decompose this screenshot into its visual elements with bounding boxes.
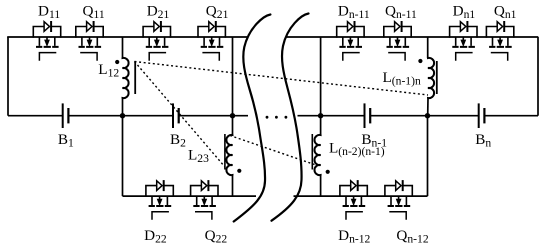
- inductor L23 core bar: [224, 134, 226, 170]
- wire: vertical branch x=427.5 middle rail to bottom rail: [427, 116, 429, 196]
- transistor switch Q22 (MOSFET with body diode): [191, 180, 218, 220]
- wire: right edge vertical: [537, 37, 539, 116]
- transistor switch Qn-11 (MOSFET with body diode): [384, 21, 411, 61]
- wire: middle rail segment between B(n-1) and Bn: [370, 115, 479, 117]
- wire: vertical branch x=233 top rail to middle rail: [232, 37, 234, 116]
- inductor L(n-2)(n-1) core bar: [311, 134, 313, 170]
- wire: vertical branch node1-node2 cell tap (L12 lower lead to bottom rail): [122, 116, 124, 196]
- node B2 right junction: [230, 113, 235, 118]
- wire: vertical branch x=321 top rail to middle rail: [320, 37, 322, 116]
- wire: middle rail segment from break to B(n-1): [298, 115, 365, 117]
- transistor switch Q11 (MOSFET with body diode): [76, 21, 103, 61]
- battery Bn: [479, 103, 485, 128]
- inductor L12 core bar: [134, 61, 136, 94]
- node B(n-1) left junction: [318, 113, 323, 118]
- inductor L(n-2)(n-1) winding: [314, 116, 320, 196]
- battery Bn-1: [365, 103, 371, 128]
- coupling dotted line L12 to L(n-1)n: [135, 62, 429, 96]
- transistor switch Qn1 (MOSFET with body diode): [486, 21, 513, 61]
- battery B2: [173, 103, 179, 128]
- inductor L(n-1)n core bar: [436, 61, 438, 94]
- wire: middle rail segment right of Bn: [484, 115, 538, 117]
- transistor switch Dn-11 (MOSFET with body diode): [337, 21, 364, 61]
- wire: middle rail segment between B1 and B2: [68, 115, 173, 117]
- inductor L23 winding: [226, 116, 232, 196]
- transistor switch Q21 (MOSFET with body diode): [198, 21, 225, 61]
- break squiggle right: [272, 14, 309, 221]
- transistor switch D11 (MOSFET with body diode): [33, 21, 60, 61]
- wire: middle rail segment right of B2 to break: [179, 115, 248, 117]
- wire: left edge vertical: [7, 37, 9, 116]
- inductor L(n-2)(n-1) polarity dot: [326, 170, 330, 174]
- inductor L12 winding: [123, 37, 129, 116]
- node B1/B2 junction: [120, 113, 125, 118]
- ellipsis continuation dots: [266, 116, 288, 119]
- transistor switch Qn-12 (MOSFET with body diode): [385, 180, 412, 220]
- wire: middle rail segment B1 left: [8, 115, 63, 117]
- transistor switch D22 (MOSFET with body diode): [146, 180, 173, 220]
- coupling dotted line L12 to L23: [135, 62, 226, 168]
- break squiggle left: [234, 15, 271, 222]
- inductor L(n-1)n polarity dot: [418, 59, 422, 63]
- wire: bottom rail left segment: [123, 195, 257, 197]
- node B(n-1)/Bn junction: [425, 113, 430, 118]
- transistor switch Dn-12 (MOSFET with body diode): [340, 180, 367, 220]
- inductor L23 polarity dot: [237, 169, 241, 173]
- transistor switch D21 (MOSFET with body diode): [143, 21, 170, 61]
- wire: top rail right segment: [286, 36, 538, 38]
- coupling dotted line L23 to L(n-2)(n-1): [230, 136, 315, 165]
- transistor switch Dn1 (MOSFET with body diode): [450, 21, 477, 61]
- battery B1: [63, 103, 69, 128]
- inductor L12 polarity dot: [115, 60, 119, 64]
- inductor L(n-1)n winding: [428, 37, 434, 116]
- wire: top rail left segment: [7, 36, 247, 38]
- wire: bottom rail right segment: [294, 195, 428, 197]
